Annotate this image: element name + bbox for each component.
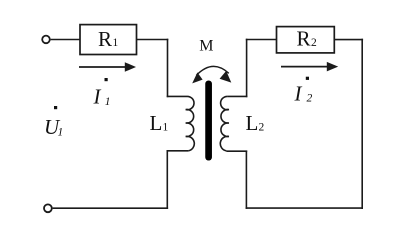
wire to R2 — [246, 39, 277, 41]
resistor R2 — [277, 27, 335, 53]
svg-text:1: 1 — [105, 96, 111, 108]
label R1 — [98, 27, 119, 51]
wire right upper vertical to R2 — [246, 39, 248, 97]
svg-text:2: 2 — [311, 37, 317, 49]
svg-text:L: L — [246, 111, 259, 135]
wire L2 bottom exit — [226, 150, 247, 152]
label I1 (dotted phasor) — [93, 78, 111, 109]
svg-text:1: 1 — [58, 127, 64, 139]
inductor L2 — [220, 96, 229, 150]
wire bottom left horizontal — [53, 207, 169, 209]
wire L1 bottom exit — [167, 150, 189, 152]
core bar — [205, 84, 212, 157]
svg-text:I: I — [93, 85, 102, 109]
current arrow I1 — [79, 62, 136, 72]
wire R1 to corner — [137, 39, 169, 41]
label L1 — [150, 111, 169, 135]
svg-text:1: 1 — [163, 122, 169, 134]
label R2 — [297, 27, 318, 51]
label M mutual inductance — [199, 38, 213, 55]
svg-text:M: M — [199, 38, 213, 55]
svg-text:R: R — [98, 27, 112, 51]
wire R2 to right corner — [334, 39, 363, 41]
wire far right vertical — [361, 39, 363, 209]
current arrow I2 — [281, 62, 338, 72]
inductor L1 — [186, 96, 195, 150]
wire left lower vertical — [166, 150, 168, 209]
wire terminal to R1 — [51, 39, 80, 41]
wire L2 top exit — [228, 95, 248, 97]
wire to L1 top entry — [167, 95, 187, 97]
wire bottom right horizontal — [246, 207, 363, 209]
label L2 — [246, 111, 265, 135]
svg-text:I: I — [294, 82, 303, 106]
svg-text:2: 2 — [259, 122, 265, 134]
svg-text:L: L — [150, 111, 163, 135]
wire right lower vertical — [245, 151, 247, 209]
wire corner down to L1 top — [167, 39, 169, 97]
resistor R1 — [80, 25, 137, 55]
terminal bottom-left input — [44, 204, 52, 212]
label U1 source voltage (dotted phasor) — [44, 106, 63, 139]
svg-text:2: 2 — [307, 93, 313, 105]
label I2 (dotted phasor) — [294, 77, 313, 106]
svg-text:R: R — [297, 27, 311, 51]
svg-text:1: 1 — [113, 37, 119, 49]
terminal top-left input — [42, 36, 50, 44]
coupling arc arrow (double-headed) — [192, 66, 231, 83]
